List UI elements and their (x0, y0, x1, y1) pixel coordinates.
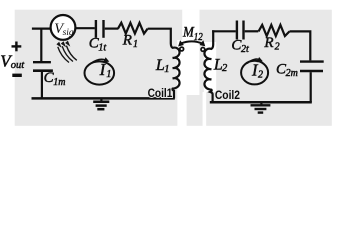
voltage source V_sig circle (51, 15, 76, 40)
wire circle to C1t (76, 27, 95, 29)
svg-text:1: 1 (106, 69, 111, 80)
svg-text:out: out (11, 60, 25, 71)
capacitor C2t plates (236, 21, 238, 40)
wire R2 to top-right corner and down (290, 31, 311, 60)
inductor L2 coil with top corner (204, 30, 213, 102)
coupling arc (181, 41, 203, 43)
svg-text:1m: 1m (53, 77, 65, 88)
label minus (12, 74, 21, 77)
svg-text:2m: 2m (286, 68, 298, 79)
wire C1m to bottom rail (41, 72, 43, 99)
inductor L1 coil (171, 44, 180, 99)
capacitor C2m plates (300, 60, 324, 62)
svg-text:2: 2 (258, 69, 263, 80)
svg-text:R: R (263, 35, 273, 51)
wire R1 to corner (148, 29, 171, 44)
wire bottom rail left box (32, 97, 175, 100)
svg-text:2: 2 (222, 63, 228, 74)
V_sig label (54, 21, 74, 38)
wire top rail right box (212, 30, 236, 32)
svg-text:sig: sig (63, 28, 74, 38)
figure background panel (15, 10, 332, 126)
svg-text:1: 1 (164, 64, 169, 75)
ground right (260, 102, 262, 105)
capacitor C1t plates (95, 20, 97, 38)
white gap right band (204, 42, 216, 92)
wire C2t to R2 (245, 30, 259, 32)
wire bottom rail right box (210, 101, 312, 104)
resistor R2 zigzag (259, 25, 290, 36)
wire left branch from T (40, 29, 42, 62)
svg-text:2: 2 (275, 42, 280, 53)
wire top-left stub (32, 28, 51, 30)
ground left (100, 98, 102, 101)
white gap left band lower (177, 95, 186, 126)
resistor R1 zigzag (118, 23, 148, 34)
white gap left band (177, 40, 199, 95)
current loop I_1 (85, 57, 115, 84)
svg-text:2t: 2t (241, 44, 249, 55)
V_sig hand-drawn arrows (58, 46, 77, 63)
svg-text:Coil2: Coil2 (215, 88, 240, 102)
polarity dot right (201, 48, 205, 52)
svg-text:Coil1: Coil1 (148, 86, 173, 100)
wire C2m to bottom rail (310, 72, 312, 102)
polarity dot left (180, 47, 184, 51)
current loop I_2 (241, 57, 268, 84)
label + (12, 42, 22, 52)
svg-text:R: R (122, 33, 132, 49)
capacitor C1m plates (33, 61, 51, 63)
white gap top patch (182, 10, 199, 42)
svg-text:M: M (182, 25, 195, 41)
white gap right band lower (203, 92, 207, 126)
wire C1t to R1 (105, 28, 119, 30)
svg-text:1: 1 (133, 39, 138, 50)
svg-text:1t: 1t (98, 42, 106, 53)
